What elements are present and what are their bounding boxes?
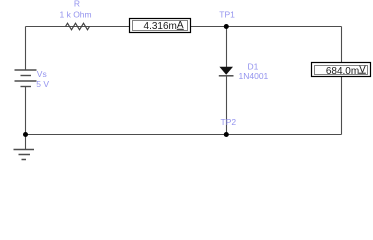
svg-text:4.316m: 4.316m (144, 21, 177, 32)
diode D1 cathode bar (219, 75, 234, 77)
wire bottom (26, 134, 342, 136)
node TP2 junction dot (224, 132, 229, 137)
svg-text:D1: D1 (248, 62, 259, 72)
voltmeter unit underline (359, 72, 366, 74)
svg-text:R: R (74, 0, 80, 9)
svg-text:TP2: TP2 (221, 117, 237, 127)
svg-text:1 k Ohm: 1 k Ohm (60, 10, 92, 20)
wire left top (corner to battery) (25, 27, 27, 71)
ground symbol (14, 150, 35, 160)
ground stub wire (25, 135, 27, 150)
svg-text:1N4001: 1N4001 (239, 71, 269, 81)
svg-text:5 V: 5 V (36, 79, 49, 89)
svg-text:Vs: Vs (37, 69, 47, 79)
svg-text:684.0m: 684.0m (326, 66, 359, 77)
ammeter unit underline (177, 28, 184, 30)
wire top: left corner to ammeter (26, 26, 130, 28)
wire right side vertical (341, 27, 343, 135)
ammeter probe outer box (130, 19, 191, 33)
svg-text:TP1: TP1 (219, 9, 235, 19)
voltmeter probe outer box (312, 63, 371, 77)
wire top: ammeter to right corner (191, 26, 342, 28)
ammeter probe inner box (133, 21, 188, 31)
wire diode branch upper (TP1 to diode) (226, 27, 228, 68)
resistor R1 zigzag (66, 23, 90, 30)
wire left bottom (battery to bottom junction) (25, 87, 27, 135)
diode D1 triangle (219, 67, 233, 75)
voltmeter probe inner box (315, 66, 368, 75)
node TP1 junction dot (224, 24, 229, 29)
battery Vs plates (15, 70, 37, 87)
ground junction dot (23, 132, 28, 137)
wire diode branch lower (diode to TP2) (226, 76, 228, 135)
